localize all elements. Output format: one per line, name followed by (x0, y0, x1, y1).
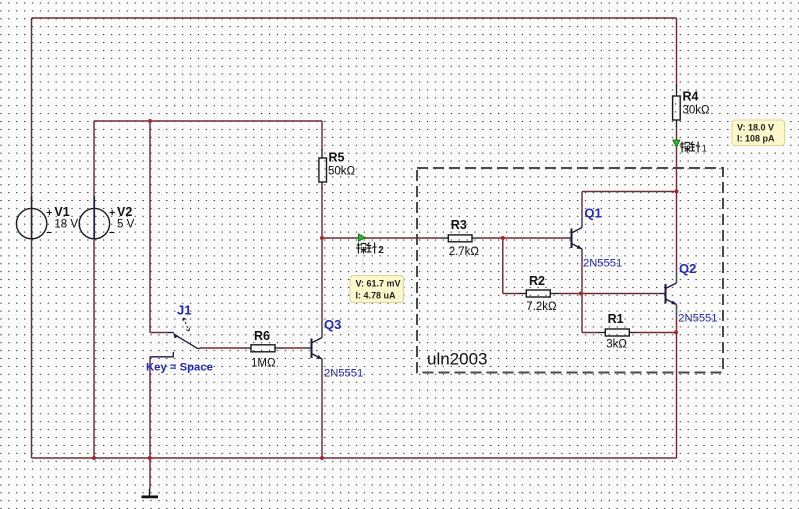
svg-text:I: 108 pA: I: 108 pA (737, 134, 775, 144)
svg-text:30kΩ: 30kΩ (683, 105, 711, 117)
svg-text:2N5551: 2N5551 (324, 368, 363, 380)
svg-text:R2: R2 (529, 274, 545, 288)
svg-text:3kΩ: 3kΩ (606, 339, 627, 351)
svg-text:R1: R1 (608, 312, 624, 326)
svg-text:2: 2 (378, 245, 384, 256)
svg-text:I: 4.78 uA: I: 4.78 uA (356, 291, 397, 301)
svg-text:5 V: 5 V (117, 219, 135, 231)
svg-text:Key = Space: Key = Space (146, 362, 213, 374)
svg-text:18 V: 18 V (54, 219, 78, 231)
svg-text:1: 1 (702, 144, 707, 154)
svg-text:uln2003: uln2003 (427, 350, 488, 369)
svg-text:2N5551: 2N5551 (678, 313, 717, 325)
svg-text:R3: R3 (451, 218, 467, 232)
svg-text:V2: V2 (117, 205, 132, 219)
svg-text:1MΩ: 1MΩ (251, 358, 276, 370)
svg-text:2.7kΩ: 2.7kΩ (449, 246, 480, 258)
svg-text:V1: V1 (54, 205, 69, 219)
svg-text:J1: J1 (177, 303, 191, 318)
svg-text:V: 61.7 mV: V: 61.7 mV (356, 279, 401, 289)
svg-text:2N5551: 2N5551 (583, 258, 622, 270)
svg-text:R6: R6 (254, 329, 270, 343)
svg-text:50kΩ: 50kΩ (328, 166, 356, 178)
svg-text:Q3: Q3 (324, 317, 341, 332)
svg-text:7.2kΩ: 7.2kΩ (526, 301, 557, 313)
svg-text:Q1: Q1 (584, 206, 601, 221)
svg-text:R4: R4 (683, 90, 699, 104)
svg-text:R5: R5 (329, 151, 345, 165)
svg-text:Q2: Q2 (679, 261, 696, 276)
svg-text:V: 18.0 V: V: 18.0 V (737, 123, 774, 133)
